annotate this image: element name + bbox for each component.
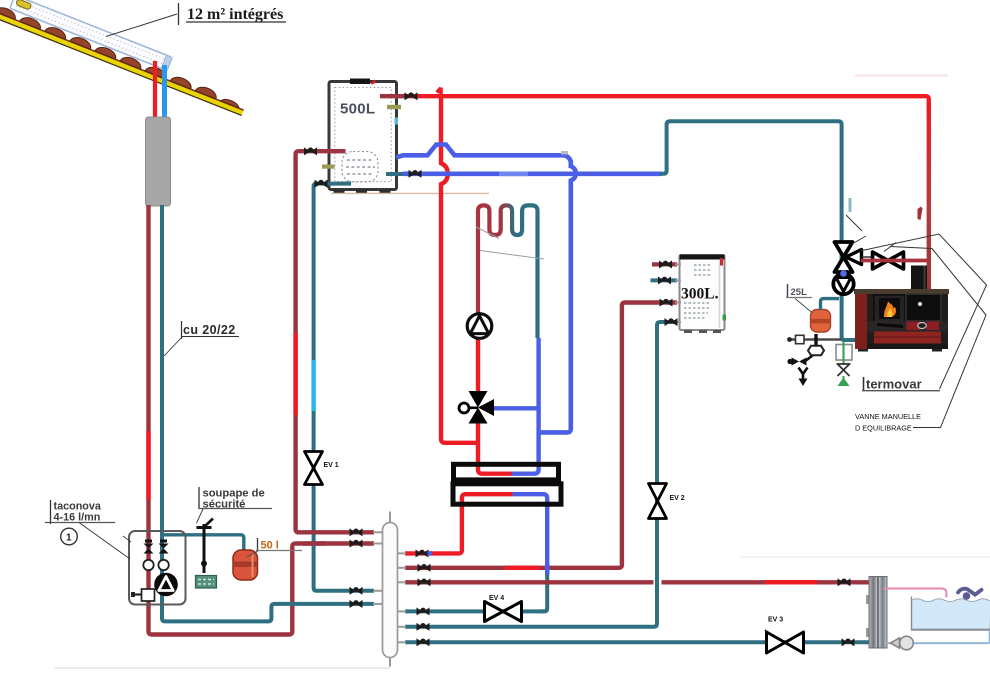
pipe: bright red drop from stove line to mixer tee <box>441 96 478 443</box>
label 12 m2 integres: tick bar <box>178 3 180 25</box>
pipe: 500L right lower teal stub <box>386 172 403 176</box>
highlight: lighter blue patch on lower blue run <box>499 172 528 177</box>
svg-text:EV 1: EV 1 <box>324 462 339 469</box>
svg-text:cu 20/22: cu 20/22 <box>183 323 236 337</box>
label 12 m2 integres: leader line <box>106 14 177 37</box>
svg-text:25L: 25L <box>791 287 808 298</box>
swimmer icon <box>958 589 982 600</box>
gauge link stub <box>806 356 813 361</box>
drain Y symbol with arrow <box>799 368 808 380</box>
pipe: vessel 25L to return (teal) <box>821 299 840 310</box>
union valve: 300L port2 <box>658 276 671 284</box>
station: check valve on teal <box>159 540 169 554</box>
pointer arrow diagonals at valves <box>846 215 862 231</box>
label taconova: leader line <box>79 523 130 560</box>
pipe: junction nub above tee <box>437 88 441 98</box>
label cu 20/22: leader line <box>164 337 182 356</box>
union valve: 500L right lower <box>409 170 422 178</box>
pipe: solar hot down (dark red) to manifold L2 <box>149 205 375 635</box>
pump P2 stove loop (circle with triangle) <box>833 274 853 294</box>
pipe: collector blue return riser <box>162 65 167 119</box>
pool pump <box>891 636 914 650</box>
pool return pipe <box>887 631 990 644</box>
union valve: pool HX red line <box>838 578 851 586</box>
pool heat exchanger (gray finned unit) <box>866 577 887 649</box>
solar pump station panel <box>129 531 186 605</box>
manifold (hydraulic separator) <box>383 512 398 667</box>
station: flow meter circle on red <box>143 560 153 570</box>
collector sensor capsule <box>16 0 32 10</box>
label soupape: leader line <box>197 509 204 523</box>
union valve: 300L port1 <box>659 260 672 268</box>
station: fill box on red <box>142 589 155 601</box>
wood stove body <box>854 289 949 352</box>
label taconova: underline <box>45 522 115 524</box>
pump P1 (circulation pump, circle with triangle) <box>467 314 492 339</box>
label termovar: tick bar <box>863 377 865 391</box>
label termovar: underline <box>862 390 940 392</box>
union valve: pool HX teal line <box>842 638 855 646</box>
blue dot between valve and pump <box>840 270 847 277</box>
valve EV2 <box>649 484 685 519</box>
boiler thermostat box <box>836 345 852 361</box>
expansion vessel 25L <box>811 310 831 333</box>
label 50 l: tick bar <box>257 538 259 550</box>
pool tub outline <box>912 597 990 631</box>
stove cold feed line (gray) <box>790 338 842 341</box>
highlight: bright red on RB line <box>505 566 540 570</box>
cold feed union box <box>796 335 805 343</box>
drain valve (X) <box>837 364 851 376</box>
label cu 20/22: tick bar <box>181 321 183 339</box>
station: solar pump (black disc, white triangle) <box>154 573 178 597</box>
svg-text:300L.: 300L. <box>681 286 719 303</box>
label taconova: circled 1 <box>61 528 78 545</box>
pipe: 300L red stub port 1 <box>652 262 677 266</box>
faint scan artifact line right <box>740 556 990 558</box>
pipe: blue branch to mixing valve <box>494 406 539 410</box>
tank 300L body <box>680 255 727 334</box>
expansion vessel 50L <box>233 550 258 580</box>
pipe: 500L top to stove supply, bright red run <box>406 96 929 112</box>
green drain foot <box>838 378 850 387</box>
highlight: bright red over L1 riser <box>293 333 297 415</box>
blue tick after manifold RA valve <box>428 551 433 555</box>
label soupape de securite: tick bar <box>198 487 200 509</box>
pipe: manifold RE teal up through EV2 to 300L <box>405 322 677 627</box>
pipe: blue upper from 500L with crossover bumps <box>396 145 576 433</box>
faint pink smear top right <box>855 74 948 77</box>
roof batten top edge <box>0 11 244 110</box>
roof batten bottom edge <box>0 16 242 115</box>
light teal tick right of stove return <box>849 198 852 212</box>
pipe insulation sleeve <box>146 117 171 206</box>
svg-text:VANNE MANUELLE: VANNE MANUELLE <box>855 412 921 421</box>
union valve: 500L left top <box>304 147 317 155</box>
pipe: L2 crossing overlay (red over teal) <box>303 541 326 545</box>
svg-text:termovar: termovar <box>866 377 922 392</box>
pipe: pump to mixing valve (bright red) <box>476 339 480 394</box>
pink pool supply line <box>883 589 946 598</box>
pipe: blue lower run to stove corner <box>403 172 662 177</box>
faint scan artifact line bottom left <box>55 667 390 669</box>
union valve: 300L port4 <box>665 318 678 326</box>
3-way mixing valve <box>459 391 494 424</box>
union valve: manifold RE <box>417 623 430 631</box>
label taconova: tick bar <box>50 500 52 524</box>
pointer polyline 2 (to vanne manuelle) <box>890 247 986 428</box>
svg-text:500L: 500L <box>340 101 375 118</box>
union valve: 300L port3 <box>660 299 673 307</box>
pipe: plate HX bottom blue drop <box>513 494 548 575</box>
cold feed cap <box>787 337 792 342</box>
pipe: manifold RF teal to pool HX via EV3 <box>405 640 870 644</box>
pipe: manifold RC dark red to pool HX (gap at EV2 crossing) <box>405 580 654 584</box>
pipe: 500L left top to manifold L1 (dark red) <box>296 151 374 532</box>
pipe: 300L teal stub port 2 <box>651 278 678 282</box>
faint crease artifact over coil <box>476 227 499 239</box>
roof tiles row <box>0 5 242 108</box>
svg-text:50 l: 50 l <box>261 540 279 552</box>
union valve: 500L left lower <box>315 180 328 188</box>
pipe: mixing valve out to plate HX top (bright red) <box>478 421 512 474</box>
valve EV1 <box>305 452 339 485</box>
label cu 20/22: underline <box>181 336 239 338</box>
highlight: bright cyan over EV1 riser <box>311 360 315 411</box>
pipe: 500L left lower to manifold L3 via EV1 (teal) <box>314 184 374 591</box>
green drain pipe from stove return <box>843 342 845 365</box>
pipe: teal branch to 50L expansion vessel <box>164 535 244 551</box>
manual balancing valve (horizontal) <box>873 252 904 269</box>
faint crease artifact over coil 2 <box>480 251 544 260</box>
roof group (rotated to slope) <box>0 0 252 115</box>
safety group tee bar <box>814 334 817 346</box>
pipe: plate HX bottom red to manifold RA <box>405 494 513 553</box>
svg-text:12 m² intégrés: 12 m² intégrés <box>187 6 283 23</box>
pipe: blue over RB crossing overlay <box>545 561 549 574</box>
label 25L: leader line <box>795 299 813 314</box>
svg-text:4-16 l/mn: 4-16 l/mn <box>54 512 101 524</box>
svg-text:EV 4: EV 4 <box>489 595 504 602</box>
label 12 m2 integres: underline <box>186 21 286 23</box>
union valve: 500L top hot <box>405 92 418 100</box>
pipe: buffer coil serpentine <box>478 205 538 338</box>
svg-text:EV 2: EV 2 <box>670 495 685 502</box>
label 25L: underline <box>786 297 812 299</box>
svg-text:1: 1 <box>66 533 72 544</box>
union valve: manifold RF <box>417 638 430 646</box>
pipe: stove riser vertical (gradient red) <box>927 110 931 290</box>
small red mark near stove riser <box>918 207 923 221</box>
pipe: dark red link valve to stove riser <box>861 259 927 263</box>
plate heat exchanger upper frame <box>454 464 559 480</box>
union valve: manifold L3 <box>350 587 363 595</box>
tan shadow line under 500L tank <box>331 192 489 194</box>
tank 500L body <box>322 79 401 194</box>
pipe: manifold RD through EV4 <box>405 609 544 613</box>
union valve: manifold L2 <box>350 540 363 548</box>
label 50 l: leader line <box>247 551 258 557</box>
label 50 l: underline <box>256 550 302 552</box>
label soupape: underline <box>199 508 272 510</box>
stove chimney <box>911 266 927 291</box>
solar collector dotted absorber rows <box>18 1 167 60</box>
svg-text:EV 3: EV 3 <box>768 617 783 624</box>
safety valve assembly (soupape) <box>197 519 214 574</box>
pipe: 500L top to stove supply, dark stub <box>380 94 406 98</box>
valve EV3 <box>765 617 804 654</box>
pool basin water <box>912 599 990 629</box>
manifold gray port connectors <box>373 264 681 642</box>
leader tick into panel <box>123 536 131 542</box>
roof tile batten (yellow band) <box>0 11 244 115</box>
solar collector body <box>10 0 172 70</box>
highlight: bright red over solar down pipe <box>146 431 150 500</box>
valve EV4 <box>485 595 522 622</box>
svg-text:D EQUILIBRAGE: D EQUILIBRAGE <box>855 424 912 433</box>
pointer polyline 1 (to termovar) <box>860 234 987 389</box>
pipe: manifold RB dark red up to 300L <box>405 303 677 568</box>
union valve: manifold RA <box>416 549 429 557</box>
station: fill box stub <box>134 593 142 595</box>
pipe: teal continuation to EV4 line <box>540 573 547 611</box>
drain tundish (green) <box>196 576 217 589</box>
plate heat exchanger lower frame <box>453 484 561 504</box>
pipe: blue main vertical into plate HX top <box>512 338 539 474</box>
pipe: solar return (teal) from manifold L4 <box>162 205 374 621</box>
union valve: manifold RD <box>417 607 430 615</box>
safety relief valve (small bowtie) <box>787 358 806 366</box>
station: check valve on red <box>144 540 154 554</box>
collector right end cap <box>161 55 172 70</box>
union valve: manifold L1 <box>350 528 363 536</box>
union valve: manifold RC <box>418 578 431 586</box>
union valve: manifold RB <box>418 564 431 572</box>
station: flow meter circle on teal <box>158 560 168 570</box>
label 25L: tick bar <box>787 284 789 297</box>
gray blob artifact above blue elbow <box>561 151 568 155</box>
pressure gauge hexagon <box>808 346 824 355</box>
highlight: bright red on RC line <box>765 580 817 584</box>
pipe: collector red riser <box>153 61 157 119</box>
termovar 3-way valve on stove return <box>835 242 872 272</box>
pipe: teal elbow up over to stove return <box>660 121 858 340</box>
union valve: manifold L4 <box>350 600 363 608</box>
